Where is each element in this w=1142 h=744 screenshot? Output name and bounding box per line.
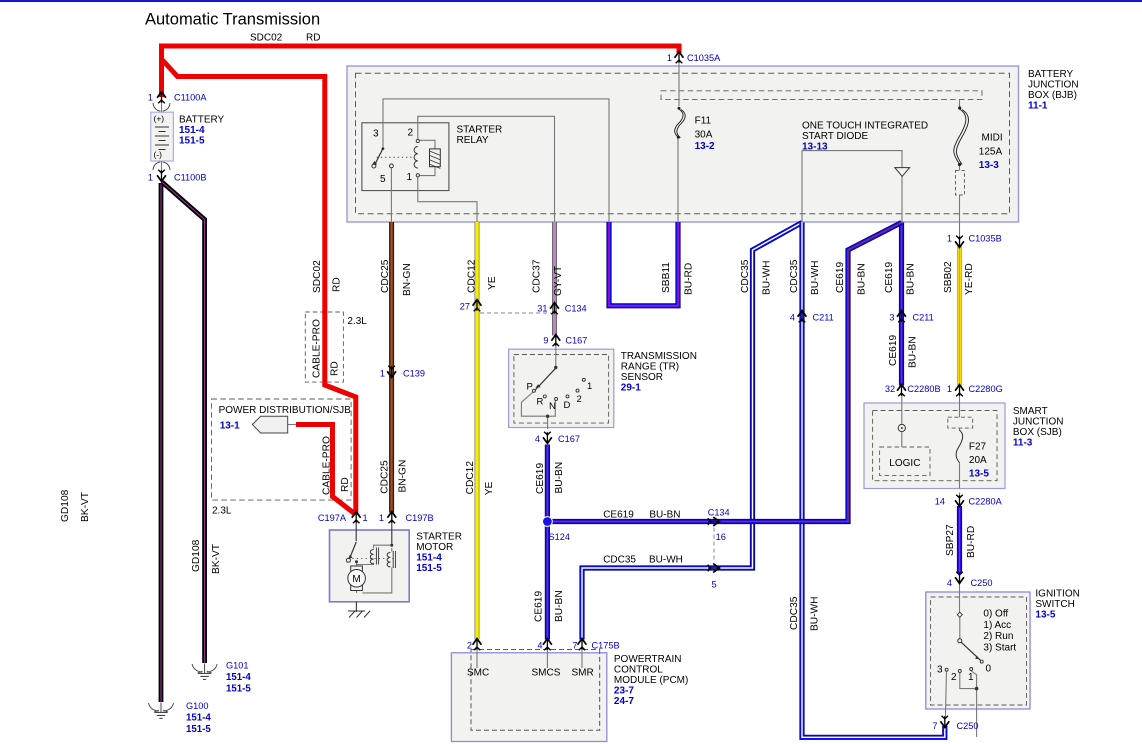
svg-text:G101: G101 bbox=[226, 661, 248, 671]
svg-text:C139: C139 bbox=[403, 369, 425, 379]
svg-text:CDC35: CDC35 bbox=[603, 554, 636, 565]
svg-text:POWERTRAIN: POWERTRAIN bbox=[614, 654, 682, 665]
svg-text:13-1: 13-1 bbox=[220, 421, 240, 432]
svg-text:P: P bbox=[527, 382, 533, 393]
svg-text:151-5: 151-5 bbox=[179, 136, 205, 147]
svg-text:SMCS: SMCS bbox=[532, 668, 561, 679]
svg-text:CE619: CE619 bbox=[835, 262, 846, 293]
svg-text:STARTER: STARTER bbox=[416, 532, 462, 543]
svg-text:C250: C250 bbox=[971, 578, 993, 588]
svg-text:JUNCTION: JUNCTION bbox=[1013, 417, 1064, 428]
svg-text:151-5: 151-5 bbox=[416, 563, 442, 574]
svg-text:1: 1 bbox=[968, 672, 974, 683]
svg-text:16: 16 bbox=[716, 532, 726, 542]
svg-text:(+): (+) bbox=[154, 114, 165, 124]
svg-text:SDC02: SDC02 bbox=[250, 33, 283, 44]
svg-text:C211: C211 bbox=[913, 313, 934, 323]
svg-text:YE: YE bbox=[484, 482, 495, 496]
svg-text:31: 31 bbox=[537, 304, 547, 314]
svg-text:CDC25: CDC25 bbox=[380, 259, 391, 293]
svg-text:ONE TOUCH INTEGRATED: ONE TOUCH INTEGRATED bbox=[802, 120, 928, 131]
svg-text:3: 3 bbox=[373, 129, 379, 140]
svg-text:2: 2 bbox=[951, 672, 957, 683]
svg-text:BU-BN: BU-BN bbox=[649, 509, 680, 520]
svg-text:C1100A: C1100A bbox=[174, 93, 207, 103]
svg-text:BOX (BJB): BOX (BJB) bbox=[1028, 90, 1077, 101]
svg-text:BU-BN: BU-BN bbox=[554, 590, 565, 622]
svg-text:BATTERY: BATTERY bbox=[179, 114, 225, 125]
svg-text:CDC25: CDC25 bbox=[379, 460, 390, 494]
svg-text:13-3: 13-3 bbox=[979, 160, 999, 171]
svg-text:G100: G100 bbox=[186, 701, 208, 711]
svg-text:BOX (SJB): BOX (SJB) bbox=[1013, 427, 1062, 438]
svg-text:C134: C134 bbox=[565, 304, 587, 314]
svg-text:C2280G: C2280G bbox=[969, 384, 1003, 394]
svg-text:32: 32 bbox=[885, 384, 895, 394]
svg-text:C211: C211 bbox=[813, 313, 834, 323]
svg-text:CONTROL: CONTROL bbox=[614, 665, 663, 676]
svg-text:LOGIC: LOGIC bbox=[889, 458, 920, 469]
svg-text:20A: 20A bbox=[969, 455, 987, 466]
svg-text:CDC35: CDC35 bbox=[789, 259, 800, 293]
svg-text:1: 1 bbox=[667, 53, 672, 63]
svg-text:1: 1 bbox=[379, 513, 384, 523]
svg-text:M: M bbox=[352, 574, 360, 585]
svg-text:3: 3 bbox=[889, 313, 894, 323]
svg-text:151-4: 151-4 bbox=[416, 553, 442, 564]
svg-text:9: 9 bbox=[543, 336, 548, 346]
svg-text:D: D bbox=[564, 400, 571, 411]
svg-text:2) Run: 2) Run bbox=[983, 631, 1013, 642]
svg-text:23-7: 23-7 bbox=[614, 686, 634, 697]
svg-text:SWITCH: SWITCH bbox=[1035, 599, 1074, 610]
svg-text:SBB02: SBB02 bbox=[943, 261, 954, 293]
svg-text:RD: RD bbox=[306, 33, 320, 44]
svg-text:GD108: GD108 bbox=[191, 539, 202, 572]
svg-text:151-4: 151-4 bbox=[226, 672, 251, 683]
svg-text:151-5: 151-5 bbox=[186, 724, 211, 735]
svg-text:11-1: 11-1 bbox=[1028, 101, 1048, 112]
svg-text:BN-GN: BN-GN bbox=[402, 263, 413, 296]
svg-text:13-2: 13-2 bbox=[695, 141, 715, 152]
svg-text:5: 5 bbox=[380, 174, 386, 185]
svg-text:13-13: 13-13 bbox=[802, 142, 828, 153]
svg-text:151-4: 151-4 bbox=[179, 125, 205, 136]
svg-text:(-): (-) bbox=[154, 150, 163, 160]
svg-text:BU-RD: BU-RD bbox=[683, 263, 694, 295]
svg-text:4: 4 bbox=[947, 578, 952, 588]
svg-text:MIDI: MIDI bbox=[982, 132, 1003, 143]
svg-text:CE619: CE619 bbox=[603, 509, 634, 520]
svg-text:C134: C134 bbox=[708, 508, 730, 518]
svg-text:13-5: 13-5 bbox=[969, 468, 989, 479]
svg-text:C197A: C197A bbox=[318, 513, 347, 523]
svg-text:SMR: SMR bbox=[572, 668, 594, 679]
svg-text:BU-WH: BU-WH bbox=[810, 260, 821, 295]
svg-text:BN-GN: BN-GN bbox=[398, 460, 409, 493]
svg-text:2: 2 bbox=[467, 641, 472, 651]
svg-text:CABLE-PRO: CABLE-PRO bbox=[311, 319, 322, 378]
svg-text:BU-BN: BU-BN bbox=[856, 263, 867, 295]
svg-text:11-3: 11-3 bbox=[1013, 438, 1033, 449]
svg-text:RD: RD bbox=[329, 361, 340, 376]
svg-text:GY-VT: GY-VT bbox=[553, 266, 564, 296]
svg-text:SMC: SMC bbox=[467, 668, 489, 679]
svg-text:BU-BN: BU-BN bbox=[905, 263, 916, 295]
svg-text:RANGE (TR): RANGE (TR) bbox=[621, 361, 679, 372]
svg-text:4: 4 bbox=[537, 641, 542, 651]
svg-text:GD108: GD108 bbox=[60, 489, 71, 522]
svg-text:JUNCTION: JUNCTION bbox=[1028, 80, 1079, 91]
svg-text:1: 1 bbox=[587, 381, 592, 392]
svg-text:CDC12: CDC12 bbox=[466, 259, 477, 293]
svg-text:C1035A: C1035A bbox=[687, 53, 721, 63]
svg-text:YE: YE bbox=[487, 276, 498, 290]
svg-text:START DIODE: START DIODE bbox=[802, 131, 868, 142]
svg-text:1: 1 bbox=[380, 369, 385, 379]
svg-text:2: 2 bbox=[577, 394, 582, 405]
svg-text:F27: F27 bbox=[969, 442, 987, 453]
svg-text:1: 1 bbox=[947, 384, 952, 394]
svg-text:1: 1 bbox=[363, 513, 368, 523]
svg-text:N: N bbox=[549, 401, 556, 412]
svg-text:7: 7 bbox=[572, 641, 577, 651]
svg-text:SENSOR: SENSOR bbox=[621, 372, 663, 383]
svg-text:1: 1 bbox=[148, 93, 153, 103]
svg-text:2: 2 bbox=[408, 128, 414, 139]
svg-text:BATTERY: BATTERY bbox=[1028, 69, 1074, 80]
svg-text:CDC35: CDC35 bbox=[740, 259, 751, 293]
svg-text:1) Acc: 1) Acc bbox=[983, 620, 1011, 631]
svg-text:CE619: CE619 bbox=[535, 463, 546, 494]
svg-text:BU-WH: BU-WH bbox=[761, 260, 772, 295]
svg-text:125A: 125A bbox=[979, 147, 1003, 158]
svg-text:BU-WH: BU-WH bbox=[649, 554, 683, 565]
svg-text:C1100B: C1100B bbox=[174, 173, 207, 183]
svg-text:5: 5 bbox=[712, 580, 717, 590]
svg-text:RELAY: RELAY bbox=[457, 135, 489, 146]
svg-text:BU-RD: BU-RD bbox=[966, 526, 977, 558]
svg-text:27: 27 bbox=[460, 302, 470, 312]
svg-text:7: 7 bbox=[932, 721, 937, 731]
svg-text:F11: F11 bbox=[695, 115, 712, 126]
svg-text:2.3L: 2.3L bbox=[212, 506, 232, 517]
svg-text:4: 4 bbox=[790, 313, 795, 323]
svg-text:1: 1 bbox=[947, 234, 952, 244]
svg-text:C197B: C197B bbox=[406, 513, 434, 523]
svg-text:CE619: CE619 bbox=[884, 262, 895, 293]
svg-text:RD: RD bbox=[331, 277, 342, 292]
svg-text:1: 1 bbox=[148, 173, 153, 183]
svg-text:BK-VT: BK-VT bbox=[211, 544, 222, 574]
svg-text:STARTER: STARTER bbox=[457, 125, 503, 136]
svg-text:S124: S124 bbox=[549, 532, 570, 542]
svg-text:IGNITION: IGNITION bbox=[1035, 589, 1079, 600]
svg-text:BU-BN: BU-BN bbox=[907, 336, 918, 368]
svg-text:MODULE (PCM): MODULE (PCM) bbox=[614, 675, 688, 686]
svg-text:CDC35: CDC35 bbox=[789, 596, 800, 630]
svg-text:1: 1 bbox=[407, 172, 413, 183]
svg-text:30A: 30A bbox=[695, 130, 713, 141]
svg-text:SBB11: SBB11 bbox=[661, 262, 672, 293]
svg-text:CDC12: CDC12 bbox=[465, 461, 476, 495]
svg-text:151-5: 151-5 bbox=[226, 684, 251, 695]
svg-text:Automatic Transmission: Automatic Transmission bbox=[145, 11, 320, 29]
svg-text:3) Start: 3) Start bbox=[983, 643, 1016, 654]
svg-text:C250: C250 bbox=[957, 721, 979, 731]
svg-text:CE619: CE619 bbox=[533, 591, 544, 622]
svg-text:C2280A: C2280A bbox=[969, 497, 1003, 507]
svg-text:C2280B: C2280B bbox=[907, 384, 940, 394]
svg-text:3: 3 bbox=[937, 665, 943, 676]
svg-text:R: R bbox=[537, 397, 544, 408]
svg-text:0: 0 bbox=[986, 664, 992, 675]
svg-text:151-4: 151-4 bbox=[186, 713, 211, 724]
svg-text:14: 14 bbox=[935, 497, 945, 507]
svg-text:C167: C167 bbox=[558, 434, 580, 444]
svg-text:SDC02: SDC02 bbox=[312, 260, 323, 293]
svg-text:4: 4 bbox=[535, 434, 540, 444]
svg-text:C1035B: C1035B bbox=[969, 234, 1002, 244]
svg-text:YE-RD: YE-RD bbox=[964, 263, 975, 295]
svg-text:CDC37: CDC37 bbox=[531, 259, 542, 293]
svg-text:TRANSMISSION: TRANSMISSION bbox=[621, 351, 697, 362]
svg-text:SMART: SMART bbox=[1013, 406, 1048, 417]
svg-text:CABLE-PRO: CABLE-PRO bbox=[321, 436, 332, 495]
svg-text:MOTOR: MOTOR bbox=[416, 542, 453, 553]
svg-text:BU-BN: BU-BN bbox=[554, 462, 565, 494]
svg-text:2.3L: 2.3L bbox=[347, 316, 367, 327]
svg-text:BK-VT: BK-VT bbox=[80, 492, 91, 522]
svg-text:C175B: C175B bbox=[592, 641, 620, 651]
svg-text:C167: C167 bbox=[565, 336, 587, 346]
svg-text:CE619: CE619 bbox=[888, 335, 899, 366]
svg-text:POWER DISTRIBUTION/SJB: POWER DISTRIBUTION/SJB bbox=[219, 405, 352, 416]
svg-text:13-5: 13-5 bbox=[1035, 610, 1055, 621]
svg-text:29-1: 29-1 bbox=[621, 382, 641, 393]
svg-text:RD: RD bbox=[340, 477, 351, 492]
svg-text:BU-WH: BU-WH bbox=[809, 596, 820, 631]
svg-text:SBP27: SBP27 bbox=[945, 524, 956, 556]
svg-text:0) Off: 0) Off bbox=[983, 609, 1008, 620]
svg-text:24-7: 24-7 bbox=[614, 696, 634, 707]
